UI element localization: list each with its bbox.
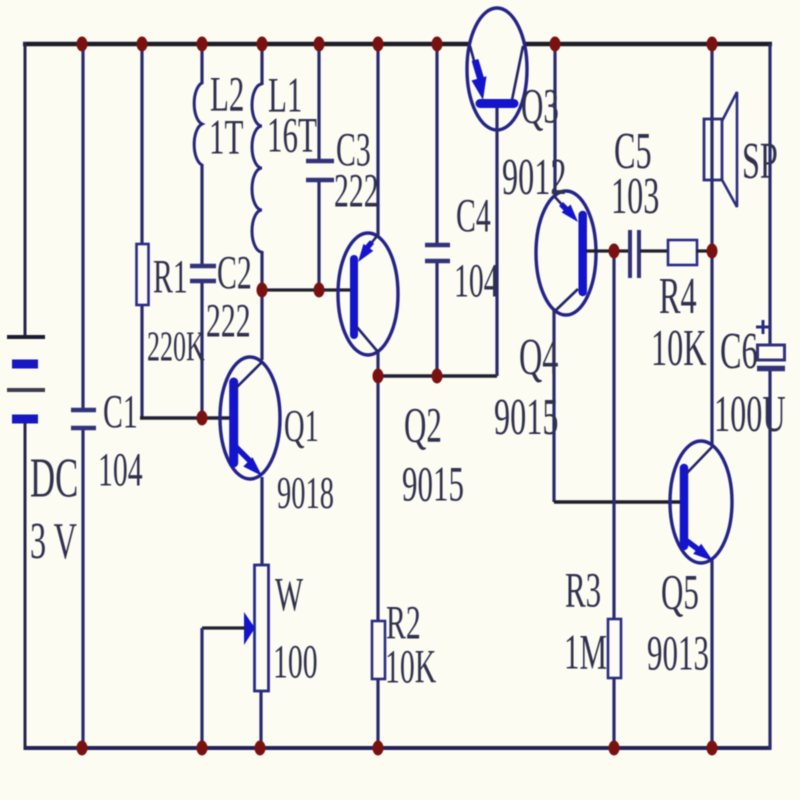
capacitor C6 plus sign (756, 320, 770, 334)
wire L2 column top (200, 44, 203, 84)
wire L1 column top (260, 44, 263, 85)
svg-text:222: 222 (334, 163, 379, 217)
node dots top rail (77, 37, 718, 52)
svg-text:C6: C6 (720, 322, 758, 380)
svg-text:SP: SP (742, 132, 778, 190)
svg-text:R3: R3 (565, 562, 601, 617)
wire node to Q1 collector (260, 290, 263, 360)
svg-text:103: 103 (611, 167, 659, 225)
wire W wiper down to ground (200, 628, 203, 748)
svg-text:Q4: Q4 (519, 328, 558, 386)
svg-text:C2: C2 (217, 245, 252, 299)
svg-text:104: 104 (454, 253, 499, 307)
wire top power rail right segment (524, 42, 772, 47)
svg-text:9015: 9015 (494, 388, 558, 446)
speaker SP (704, 92, 737, 207)
wire C3 column bottom (317, 182, 320, 290)
wire Q2 base rail (262, 288, 351, 291)
wire battery column bottom (24, 420, 27, 750)
capacitor C4 (425, 245, 450, 261)
inductor L1 (252, 84, 262, 252)
battery DC 3V (7, 337, 45, 419)
wiper arrow of W (244, 612, 255, 645)
svg-text:1M: 1M (564, 624, 607, 679)
transistor Q5 (670, 441, 732, 563)
svg-text:Q1: Q1 (284, 401, 319, 451)
wire Q2 collector down through R2 node (376, 352, 379, 622)
transistor Q1 (220, 357, 280, 479)
svg-text:100: 100 (273, 634, 318, 688)
capacitor C6 (757, 345, 785, 369)
svg-text:Q3: Q3 (521, 78, 559, 133)
svg-text:3 V: 3 V (30, 512, 77, 570)
wire C2 to Q1 base node (200, 283, 203, 418)
wire C5 to R4 (640, 249, 669, 252)
wire C3 column top (317, 44, 320, 159)
transistor Q4 (536, 191, 596, 315)
node dots middle (197, 244, 718, 426)
resistor R1 (137, 244, 149, 305)
resistor R3 (608, 619, 621, 678)
wire Q4 emitter column (553, 44, 556, 197)
svg-text:10K: 10K (385, 639, 436, 693)
wire W wiper horizontal (202, 626, 245, 629)
svg-text:Q5: Q5 (661, 564, 699, 619)
wire C6 column top (768, 44, 771, 345)
wire node to Q5 collector (710, 251, 713, 446)
resistor R4 (668, 240, 697, 265)
potentiometer W (255, 565, 269, 691)
capacitor C1 (71, 410, 96, 428)
svg-text:DC: DC (30, 447, 78, 510)
wire Q1 emitter to W (260, 477, 263, 566)
capacitor C5 (630, 230, 639, 278)
wire Q2 emitter column (376, 44, 379, 236)
svg-text:220K: 220K (147, 323, 205, 370)
wire R1 to Q1 base (140, 416, 233, 420)
wire C4 column top (435, 44, 438, 243)
wire Q2 collector to Q3 base horizontal (378, 374, 497, 378)
capacitor C3 (306, 161, 334, 180)
svg-text:104: 104 (98, 442, 143, 496)
svg-text:W: W (275, 567, 303, 621)
node dots bottom rail (77, 741, 718, 756)
wire C6 bottom to ground (768, 371, 771, 750)
wire R1 column top (140, 44, 143, 245)
svg-text:222: 222 (206, 293, 251, 347)
wire C1 column top (81, 44, 84, 408)
wire top power rail left segment (23, 42, 470, 47)
wire speaker column (710, 44, 713, 251)
wire Q4 collector down (552, 310, 555, 502)
wire R1 column bottom (140, 304, 143, 418)
wire R3 column (612, 251, 615, 620)
wire C1 column bottom (81, 430, 84, 748)
svg-text:C4: C4 (456, 188, 491, 242)
wire R3 bottom to ground (612, 677, 615, 748)
svg-text:R4: R4 (659, 267, 697, 325)
wire Q4 collector to Q5 base (554, 500, 681, 504)
svg-text:R1: R1 (153, 249, 188, 303)
wire W bottom to ground (259, 691, 262, 748)
svg-text:1T: 1T (209, 109, 243, 164)
wire L2 to C2 (200, 164, 203, 264)
wire battery column top (24, 42, 27, 337)
svg-text:9018: 9018 (277, 468, 334, 518)
transistor Q2 (338, 233, 398, 355)
svg-text:16T: 16T (267, 107, 317, 162)
capacitor C2 (190, 266, 216, 281)
svg-text:9013: 9013 (647, 625, 709, 680)
svg-text:9015: 9015 (402, 456, 464, 511)
wire bottom ground rail (25, 746, 770, 750)
svg-text:C1: C1 (103, 384, 138, 438)
wire L1 to node (260, 251, 263, 290)
wire R2 bottom to ground (376, 678, 379, 748)
inductor L2 (194, 83, 202, 165)
wire Q3 base down (495, 108, 498, 376)
resistor R2 (372, 621, 385, 679)
wire C4 column bottom (435, 263, 438, 376)
wire R4 to node (696, 249, 713, 252)
wire Q4 base to C5 (586, 249, 629, 252)
svg-text:100U: 100U (714, 385, 786, 443)
svg-text:10K: 10K (651, 319, 707, 377)
svg-text:9012: 9012 (502, 148, 566, 206)
svg-text:Q2: Q2 (404, 397, 442, 452)
wire Q5 emitter to ground (710, 560, 713, 748)
transistor Q3 (467, 8, 527, 130)
